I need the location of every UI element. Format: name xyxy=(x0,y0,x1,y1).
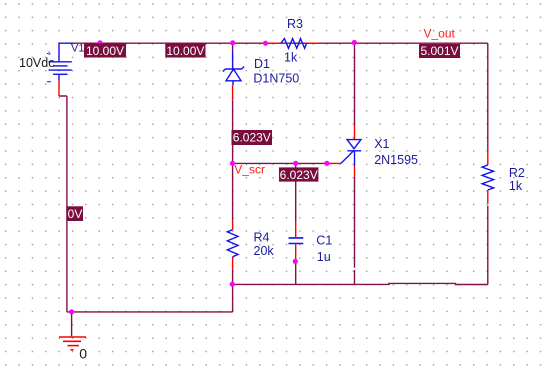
svg-text:10Vdc: 10Vdc xyxy=(19,56,54,70)
svg-text:R2: R2 xyxy=(509,166,525,180)
svg-text:X1: X1 xyxy=(374,137,389,151)
svg-text:D1: D1 xyxy=(254,57,270,71)
svg-text:V_scr: V_scr xyxy=(234,163,265,177)
svg-text:R4: R4 xyxy=(254,230,270,244)
svg-text:R3: R3 xyxy=(287,17,303,31)
svg-text:0V: 0V xyxy=(68,207,83,221)
svg-text:10.00V: 10.00V xyxy=(166,44,204,58)
svg-text:C1: C1 xyxy=(316,233,332,247)
svg-text:V1: V1 xyxy=(71,43,84,55)
svg-text:D1N750: D1N750 xyxy=(253,72,299,86)
svg-text:1k: 1k xyxy=(284,51,298,65)
svg-text:V_out: V_out xyxy=(424,27,456,41)
svg-text:5.001V: 5.001V xyxy=(420,44,458,58)
svg-text:10.00V: 10.00V xyxy=(86,44,124,58)
svg-text:6.023V: 6.023V xyxy=(233,131,271,145)
svg-text:6.023V: 6.023V xyxy=(280,168,318,182)
svg-text:20k: 20k xyxy=(254,244,275,258)
svg-text:2N1595: 2N1595 xyxy=(374,153,418,167)
svg-text:1u: 1u xyxy=(317,250,331,264)
svg-text:0: 0 xyxy=(79,345,87,361)
svg-text:1k: 1k xyxy=(509,179,523,193)
